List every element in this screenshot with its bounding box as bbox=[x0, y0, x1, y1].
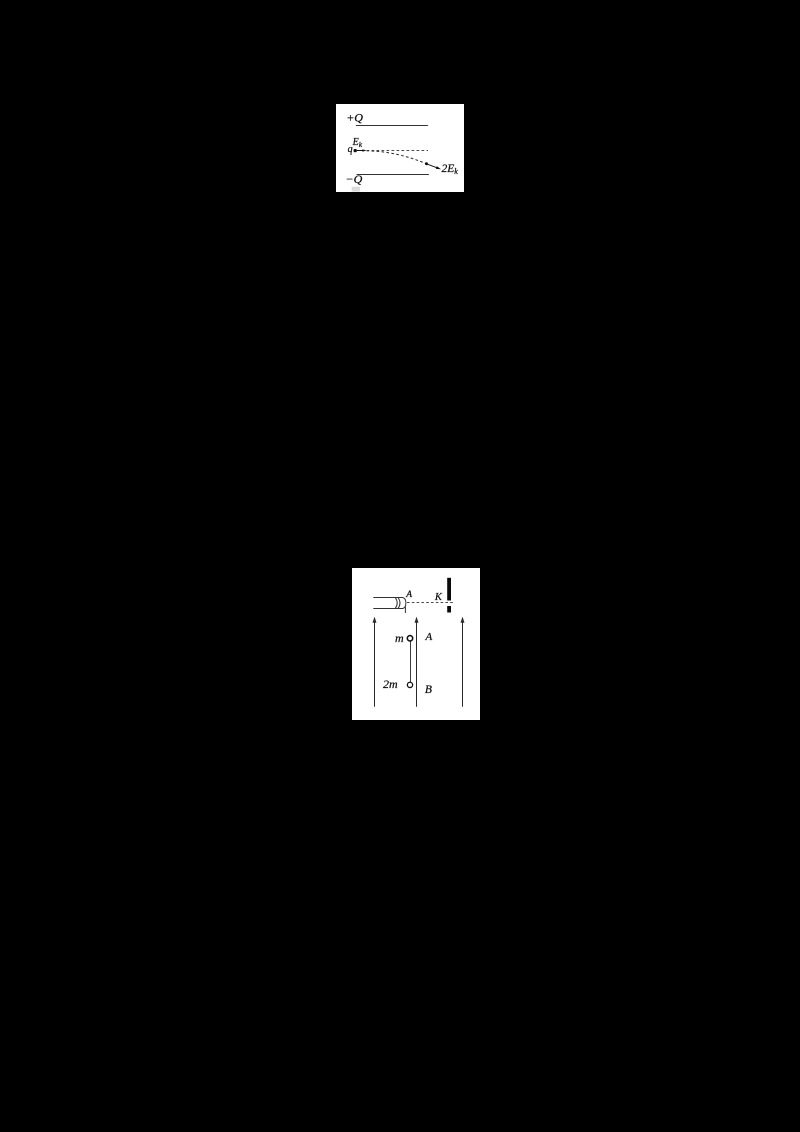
dashed parabolic trajectory bbox=[367, 151, 427, 164]
charge dot q bbox=[354, 149, 357, 152]
connecting rod bbox=[410, 641, 412, 683]
figure 2: gun, slit K and field region with balls A and B bbox=[352, 568, 480, 720]
velocity arrow Ek bbox=[357, 150, 363, 152]
svg-text:2m: 2m bbox=[383, 677, 398, 691]
svg-text:A: A bbox=[425, 631, 433, 643]
top plate bbox=[356, 125, 428, 127]
svg-text:K: K bbox=[434, 592, 443, 603]
field arrow right bbox=[462, 622, 464, 707]
ball 2m bbox=[407, 682, 412, 687]
svg-text:B: B bbox=[425, 684, 432, 696]
svg-text:A: A bbox=[405, 590, 412, 600]
slit bar upper bbox=[447, 578, 451, 601]
exit velocity arrow 2Ek bbox=[427, 164, 438, 168]
particle dot on trajectory bbox=[425, 162, 428, 165]
svg-text:Ek: Ek bbox=[352, 137, 363, 149]
gun barrel bottom line bbox=[373, 608, 403, 610]
slit bar lower bbox=[447, 606, 451, 613]
figure 1: charged parallel plates with particle trajectory bbox=[336, 104, 464, 192]
gray watermark square bbox=[352, 187, 360, 192]
gun inner ring arc 2 bbox=[398, 598, 400, 609]
svg-text:−Q: −Q bbox=[346, 172, 363, 186]
ball m bbox=[407, 636, 412, 641]
bottom plate bbox=[357, 174, 429, 176]
svg-text:m: m bbox=[395, 631, 404, 645]
gun inner ring arc 1 bbox=[395, 598, 397, 609]
dashed straight reference line bbox=[367, 150, 429, 152]
svg-text:+Q: +Q bbox=[346, 111, 363, 125]
svg-text:q: q bbox=[348, 144, 353, 155]
svg-text:2Ek: 2Ek bbox=[442, 163, 459, 176]
field arrow middle bbox=[416, 622, 418, 707]
dashed beam line bbox=[407, 602, 453, 604]
muzzle tick bbox=[404, 606, 406, 613]
gun muzzle cap bbox=[403, 598, 406, 609]
gun barrel top line bbox=[373, 597, 403, 599]
field arrow left bbox=[374, 622, 376, 707]
